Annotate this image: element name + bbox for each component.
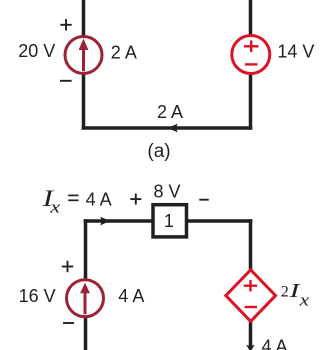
wire right vertical (b): [249, 219, 253, 347]
svg-text:4 A: 4 A: [262, 337, 288, 350]
voltage source 20V circle: [65, 37, 102, 74]
arrowhead Ix on top wire: [100, 217, 110, 226]
arrowhead 4 A downward: [246, 345, 255, 350]
minus sign 16V: [63, 322, 74, 324]
plus sign 16V: [62, 261, 73, 272]
svg-text:8 V: 8 V: [154, 182, 181, 202]
label 2Ix: [281, 280, 310, 310]
svg-text:x: x: [298, 291, 309, 310]
svg-text:2 A: 2 A: [111, 43, 137, 63]
wire top horizontal (b): [84, 219, 253, 223]
svg-text:x: x: [49, 198, 61, 217]
svg-text:14 V: 14 V: [277, 42, 314, 62]
wire right vertical (a): [249, 0, 253, 130]
minus sign 20V: [60, 80, 72, 82]
label Ix = 4 A: [41, 186, 111, 217]
plus sign inside 14V: [244, 40, 259, 52]
dependent source diamond 2Ix: [226, 270, 276, 322]
svg-text:4 A: 4 A: [86, 189, 112, 209]
plus sign inside diamond: [244, 280, 258, 291]
voltage source 16V circle: [67, 280, 104, 317]
wire left vertical (a): [82, 0, 86, 130]
plus sign 8V: [130, 194, 141, 205]
svg-text:2: 2: [281, 284, 289, 301]
arrowhead current 2 A on bottom wire: [168, 124, 178, 133]
arrow inside 20V source: [79, 39, 89, 72]
svg-text:4 A: 4 A: [118, 286, 144, 306]
arrow inside 16V source: [80, 283, 90, 315]
svg-text:1: 1: [164, 211, 174, 231]
minus sign inside diamond: [245, 306, 258, 308]
minus sign 8V: [199, 199, 209, 201]
svg-text:16 V: 16 V: [19, 286, 56, 306]
resistor box 1 ohm: [153, 205, 187, 237]
svg-text:20 V: 20 V: [18, 41, 55, 61]
minus sign inside 14V: [245, 63, 258, 65]
voltage source 14V circle: [232, 36, 270, 74]
wire bottom (a): [82, 126, 253, 130]
wire left vertical (b): [84, 219, 88, 350]
plus sign 20V: [60, 19, 71, 30]
svg-text:2 A: 2 A: [157, 102, 183, 122]
svg-text:(a): (a): [147, 141, 170, 162]
